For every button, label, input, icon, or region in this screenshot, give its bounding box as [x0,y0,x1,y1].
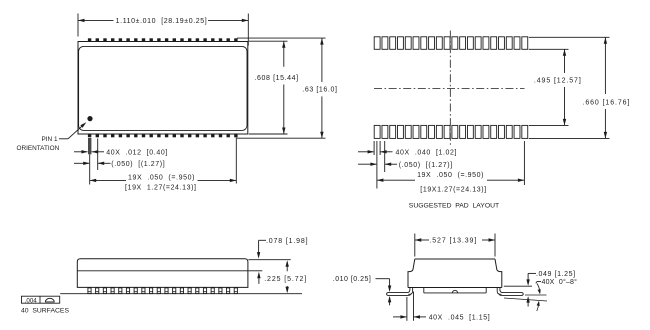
top view: pin row top (20 leads) [88,38,238,41]
svg-text:19X .050 (=.950): 19X .050 (=.950) [417,172,484,179]
extension line pin1 centerline [89,154,91,184]
dimension .660 [16.76] pad outer spacing [529,37,630,138]
pad layout extension lines (pad1 edges / centers) [374,141,524,189]
note 40 SURFACES [21,307,69,314]
svg-text:[19X 1.27(=24.13)]: [19X 1.27(=24.13)] [125,185,197,192]
extension line pin2 centerline [97,139,99,171]
flatness feature control frame .004 [22,296,60,304]
svg-text:.527 [13.39]: .527 [13.39] [429,238,477,245]
svg-text:[19X1.27(=24.13)]: [19X1.27(=24.13)] [420,186,486,193]
dimension 40X .012 [0.40] lead width [74,150,168,157]
suggested pad layout: top pad row (20 pads) [374,37,528,50]
svg-text:(.050) [(1.27)]: (.050) [(1.27)] [111,161,165,168]
svg-text:40X .040 [1.02]: 40X .040 [1.02] [396,150,458,157]
dimension 40X 0&#176;-8&#176; lead angle [504,278,577,311]
dimension 1.110±.010 [28.19±0.25] overall width [78,14,248,46]
dimension 40X .045 [1.15] lead foot width [393,292,490,322]
dimension .225 [5.72] overall height [264,260,307,293]
label PIN 1 ORIENTATION with leader arrow [17,122,87,152]
svg-text:.225 [5.72]: .225 [5.72] [264,276,307,283]
dimension (.050) [(1.27)] lead pitch [74,161,165,168]
dimension .63 [16.0] overall height [237,38,338,138]
horizontal centerline (dash-dot) [374,88,525,90]
suggested pad layout: bottom pad row (20 pads) [374,125,528,138]
svg-text:(.050) [(1.27)]: (.050) [(1.27)] [399,162,453,169]
svg-text:40X .012 [0.40]: 40X .012 [0.40] [106,150,168,157]
top view: lid (inner rounded rectangle) [79,46,247,130]
dimension 19X .050 (=.950) / [19X1.27(=24.13)] pad span [377,172,525,194]
svg-text:40X .045 [1.15]: 40X .045 [1.15] [429,315,491,322]
end view: dimension .527 [13.39] lid width [415,234,495,257]
dimension .049 [1.25] lead height [504,271,576,307]
top view: package body outline [78,42,248,135]
side view: package body [77,259,248,288]
pin 1 lead extended (emphasis bar) [88,138,91,154]
svg-text:ORIENTATION: ORIENTATION [17,145,60,152]
svg-text:.660 [16.76]: .660 [16.76] [583,99,631,106]
svg-text:40X 0°–8°: 40X 0°–8° [542,278,578,286]
svg-text:19X .050 (=.950): 19X .050 (=.950) [128,174,195,181]
end view: right gull-wing lead and foot [497,288,523,296]
dimension .495 [12.57] pad inner spacing [529,49,582,125]
svg-text:1.110±.010 [28.19±0.25]: 1.110±.010 [28.19±0.25] [116,18,208,25]
top view: pin row bottom (20 leads) [88,134,238,137]
dimension (.050) [(1.27)] pad pitch [358,162,453,169]
dimension .010 [0.25] lead thickness [333,276,392,305]
svg-text:.004: .004 [25,297,38,304]
dimension 40X .040 [1.02] pad width [358,150,457,157]
vertical centerline (dash-dot) [449,31,451,147]
seating plane line [60,293,302,295]
side view: gull-wing leads (20) [88,288,238,294]
svg-text:.078 [1.98]: .078 [1.98] [266,238,308,245]
end view: package body profile [408,259,502,288]
pin 1 index dot [87,116,92,121]
svg-text:40 SURFACES: 40 SURFACES [21,307,69,314]
side view: lid step line [77,270,248,272]
svg-text:.63 [16.0]: .63 [16.0] [302,86,337,93]
dimension 19X .050 (=.950) / [19X 1.27(=24.13)] lead span [90,138,237,192]
svg-text:.010 [0.25]: .010 [0.25] [333,276,372,283]
svg-text:.495 [12.57]: .495 [12.57] [534,78,582,85]
svg-text:.608 [15.44]: .608 [15.44] [255,75,299,82]
end view: bottom pedestal with ejector mark [424,288,486,293]
svg-text:PIN 1: PIN 1 [42,136,58,143]
svg-text:SUGGESTED PAD LAYOUT: SUGGESTED PAD LAYOUT [409,202,499,209]
dimension .078 [1.98] lid height [248,238,308,284]
caption SUGGESTED PAD LAYOUT [409,202,499,209]
svg-text:.049 [1.25]: .049 [1.25] [536,271,576,278]
dimension .608 [15.44] body height [249,41,299,134]
end view: left gull-wing lead and foot [387,288,413,296]
